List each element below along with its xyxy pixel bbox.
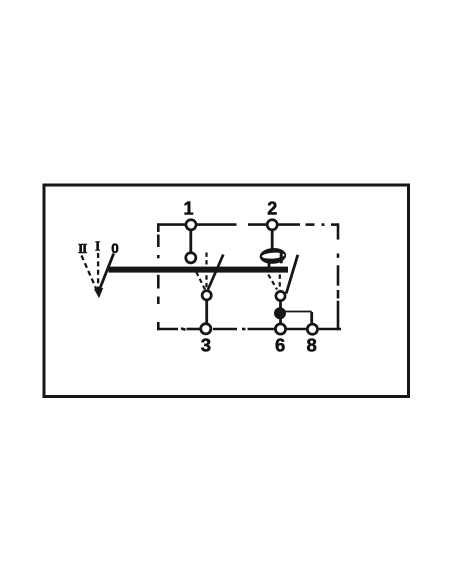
svg-text:3: 3: [201, 334, 211, 355]
svg-text:8: 8: [307, 334, 317, 355]
svg-text:1: 1: [183, 199, 193, 219]
svg-text:0: 0: [111, 241, 119, 256]
svg-text:I: I: [95, 239, 100, 254]
svg-text:II: II: [78, 241, 87, 256]
svg-text:2: 2: [267, 199, 277, 219]
svg-text:6: 6: [275, 334, 285, 355]
